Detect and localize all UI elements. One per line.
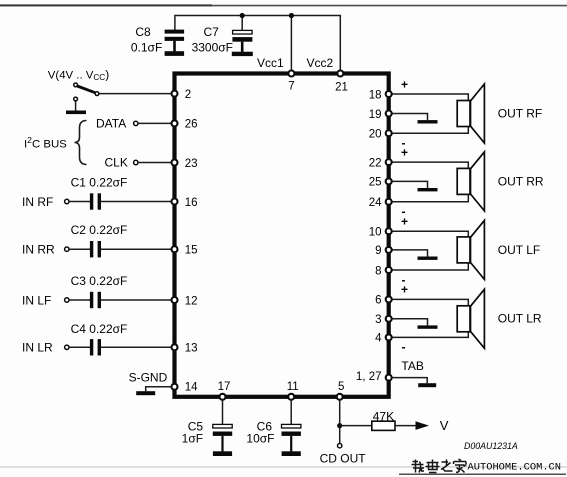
I2C brace [75, 121, 87, 165]
pin 12 [172, 297, 178, 303]
wire OUT RF speaker loop [392, 94, 469, 133]
svg-text:S-GND: S-GND [129, 371, 168, 385]
pin 26 [172, 120, 178, 126]
svg-text:8: 8 [375, 265, 381, 277]
ground switch ground [66, 111, 86, 115]
svg-text:+: + [401, 145, 408, 159]
pin 24 [386, 199, 392, 205]
wire CLK to pin 23 [138, 162, 171, 164]
capacitor C7 [232, 30, 253, 56]
pin 25 [386, 178, 392, 184]
svg-text:26: 26 [185, 119, 198, 131]
svg-text:13: 13 [185, 343, 198, 355]
pin 17 [220, 394, 226, 400]
capacitor C1 [90, 193, 101, 209]
svg-text:C1 0.22σF: C1 0.22σF [71, 175, 128, 189]
svg-text:IN LF: IN LF [22, 293, 51, 307]
pin 23 [172, 160, 178, 166]
pin 10 [386, 228, 392, 234]
svg-text:V: V [440, 418, 449, 433]
terminal DATA [134, 121, 138, 125]
svg-text:-: - [402, 340, 406, 354]
pin 16 [172, 199, 178, 205]
pin 1,27 [386, 375, 392, 381]
svg-text:Vcc1: Vcc1 [257, 56, 284, 70]
svg-text:18: 18 [369, 89, 382, 101]
svg-text:14: 14 [185, 381, 198, 393]
pin 14 [172, 384, 178, 390]
watermark autohome [412, 459, 467, 473]
terminal IN LR [65, 345, 69, 349]
wire TAB ground wire [392, 378, 428, 384]
junction pin5-branch [337, 423, 342, 428]
wire IN LR to C4 [69, 346, 90, 348]
svg-text:47K: 47K [373, 409, 394, 423]
wire Vcc1 drop to pin 7 [290, 16, 292, 73]
wire OUT RF mid ground wire [392, 114, 428, 121]
ground OUT RR mid [418, 188, 438, 191]
pin 6 [386, 296, 392, 302]
wire pin 5 down wire [339, 399, 341, 444]
terminal IN LF [65, 298, 69, 302]
svg-text:CLK: CLK [105, 156, 128, 170]
capacitor C8 [165, 30, 185, 56]
svg-text:5: 5 [338, 381, 344, 393]
svg-text:23: 23 [185, 158, 198, 170]
svg-text:2: 2 [185, 89, 191, 101]
svg-text:22: 22 [369, 157, 382, 169]
pin 15 [172, 246, 178, 252]
svg-text:15: 15 [185, 245, 198, 257]
wire IN RF to C1 [69, 201, 90, 203]
svg-text:C4 0.22σF: C4 0.22σF [71, 322, 128, 336]
svg-text:25: 25 [369, 177, 382, 189]
svg-text:CD OUT: CD OUT [320, 451, 367, 465]
svg-text:6: 6 [375, 295, 381, 307]
svg-text:DATA: DATA [96, 117, 126, 131]
wire C3 to pin 12 [101, 299, 172, 301]
svg-text:+: + [401, 77, 408, 91]
speaker OUT RR [457, 152, 484, 211]
capacitor C3 [90, 292, 101, 308]
wire OUT LR mid ground wire [392, 319, 428, 326]
speaker OUT RF [457, 84, 484, 143]
switch SW1 common [95, 92, 99, 96]
svg-text:1σF: 1σF [182, 432, 203, 446]
svg-text:9: 9 [375, 245, 381, 257]
pin 19 [386, 111, 392, 117]
svg-text:Vcc2: Vcc2 [307, 56, 334, 70]
svg-text:OUT LF: OUT LF [498, 243, 540, 257]
pin 20 [386, 130, 392, 136]
pin 3 [386, 316, 392, 322]
ground TAB ground [418, 383, 436, 387]
wire C7 stub [241, 16, 243, 31]
svg-text:D00AU1231A: D00AU1231A [464, 441, 518, 451]
svg-text:19: 19 [369, 109, 382, 121]
svg-text:OUT RF: OUT RF [498, 106, 542, 120]
svg-text:C8: C8 [135, 25, 151, 39]
pin 9 [386, 247, 392, 253]
svg-text:12: 12 [185, 295, 198, 307]
pin 21 [337, 71, 343, 77]
ground OUT RF mid [418, 120, 438, 123]
terminal IN RR [65, 247, 69, 251]
terminal IN RF [65, 199, 69, 203]
wire switch ground stub [75, 101, 77, 111]
wire OUT LF speaker loop [392, 231, 469, 270]
wire OUT LR speaker loop [392, 299, 469, 337]
pin 5 [337, 394, 343, 400]
wire switch to pin 2 [99, 93, 172, 95]
wire Vcc top rail [175, 16, 340, 73]
svg-text:10σF: 10σF [246, 432, 274, 446]
ground OUT LF mid [418, 257, 438, 260]
switch SW1 lever [77, 86, 96, 93]
svg-text:+: + [401, 283, 408, 297]
wire C6 top wire [290, 399, 292, 425]
wire 47K to V [395, 425, 417, 427]
speaker OUT LR [457, 289, 484, 348]
capacitor C5 [213, 424, 232, 456]
wire OUT RR mid ground wire [392, 181, 428, 188]
wire S-GND wire [146, 387, 173, 392]
wire C1 to pin 16 [101, 201, 172, 203]
pin 8 [386, 267, 392, 273]
speaker OUT LF [457, 220, 484, 279]
terminal CLK [134, 160, 138, 164]
svg-text:IN RR: IN RR [22, 243, 55, 257]
wire IN RR to C2 [69, 248, 90, 250]
top border line [0, 5, 567, 7]
ground OUT LR mid [418, 325, 438, 328]
pin 13 [172, 344, 178, 350]
svg-text:10: 10 [369, 227, 382, 239]
wire IN LF to C3 [69, 299, 90, 301]
svg-text:OUT LR: OUT LR [498, 312, 542, 326]
bottom separator line [0, 466, 567, 468]
top border dark segment [0, 4, 212, 6]
wire OUT LF mid ground wire [392, 250, 428, 257]
svg-text:3300σF: 3300σF [192, 41, 233, 55]
svg-text:C2 0.22σF: C2 0.22σF [71, 223, 128, 237]
ground S-GND ground [136, 391, 155, 395]
svg-text:21: 21 [335, 82, 348, 94]
capacitor C6 [282, 424, 301, 456]
svg-text:4: 4 [375, 333, 382, 345]
svg-text:IN RF: IN RF [22, 195, 53, 209]
pin 11 [288, 394, 294, 400]
svg-text:20: 20 [369, 129, 382, 141]
svg-text:AUTOHOME.COM.CN: AUTOHOME.COM.CN [468, 461, 562, 473]
wire C5 top wire [222, 399, 224, 425]
svg-text:C7: C7 [203, 25, 219, 39]
svg-text:7: 7 [288, 81, 294, 93]
arrow to V [416, 421, 430, 430]
resistor 47K [372, 421, 395, 430]
wire OUT RR speaker loop [392, 162, 469, 202]
pin 22 [386, 159, 392, 165]
svg-text:0.1σF: 0.1σF [131, 41, 162, 55]
pin 18 [386, 91, 392, 97]
switch SW1 contact bottom [74, 97, 78, 101]
pin 4 [386, 334, 392, 340]
wire C2 to pin 15 [101, 248, 172, 250]
svg-text:16: 16 [185, 197, 198, 209]
switch SW1 contact top [74, 83, 78, 87]
svg-text:TAB: TAB [401, 359, 423, 373]
svg-text:24: 24 [369, 197, 382, 209]
svg-text:1, 27: 1, 27 [356, 371, 382, 383]
junction rail-Vcc1 [289, 13, 294, 18]
pin 2 [172, 91, 178, 97]
svg-text:11: 11 [287, 381, 299, 393]
svg-text:17: 17 [218, 381, 231, 393]
wire DATA to pin 26 [138, 122, 171, 124]
svg-text:+: + [401, 215, 408, 229]
capacitor C2 [90, 241, 101, 257]
svg-text:IN LR: IN LR [22, 341, 53, 355]
pin 7 [288, 71, 294, 77]
svg-text:C3 0.22σF: C3 0.22σF [71, 274, 128, 288]
svg-text:3: 3 [375, 314, 381, 326]
wire to 47K [340, 425, 372, 427]
junction rail-C7 [240, 13, 245, 18]
wire C4 to pin 13 [101, 346, 172, 348]
IC body U1 [175, 74, 389, 397]
capacitor C4 [90, 339, 101, 355]
terminal CD OUT [338, 444, 342, 448]
svg-text:OUT RR: OUT RR [498, 174, 544, 188]
